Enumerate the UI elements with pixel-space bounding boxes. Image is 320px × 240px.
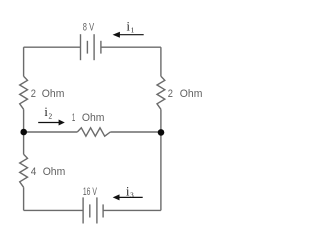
svg-text:1: 1	[131, 27, 135, 35]
svg-text:2: 2	[31, 88, 36, 100]
svg-text:2: 2	[49, 113, 53, 121]
svg-text:2: 2	[168, 88, 173, 100]
svg-text:1: 1	[72, 112, 75, 124]
svg-text:Ohm: Ohm	[180, 88, 203, 100]
svg-text:Ohm: Ohm	[43, 166, 66, 178]
svg-text:4: 4	[31, 166, 37, 178]
svg-text:Ohm: Ohm	[42, 88, 65, 100]
svg-text:Ohm: Ohm	[82, 112, 105, 124]
svg-text:16 V: 16 V	[83, 186, 97, 198]
svg-text:3: 3	[130, 192, 134, 200]
svg-text:8 V: 8 V	[83, 22, 95, 34]
